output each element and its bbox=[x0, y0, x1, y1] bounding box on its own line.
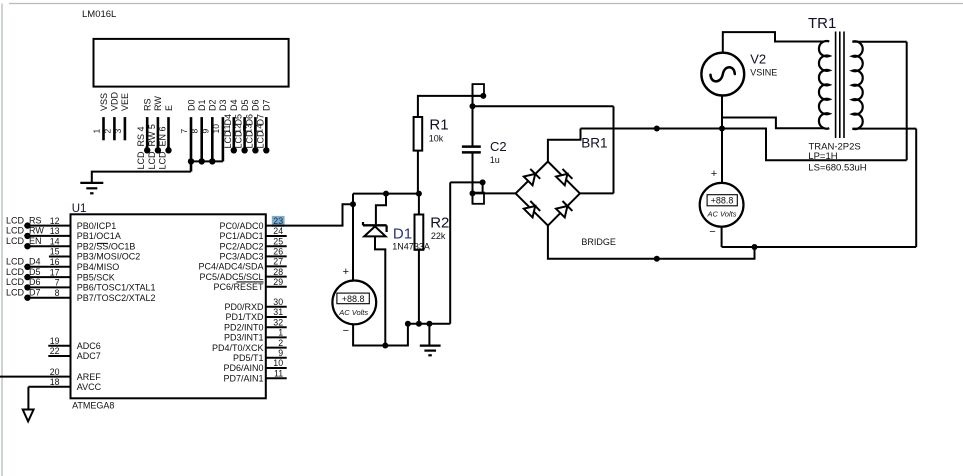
svg-text:D2: D2 bbox=[208, 99, 218, 111]
svg-text:29: 29 bbox=[273, 277, 283, 287]
svg-text:10: 10 bbox=[211, 124, 221, 134]
svg-text:LCD_RS 4: LCD_RS 4 bbox=[136, 126, 146, 169]
svg-text:31: 31 bbox=[273, 307, 283, 317]
svg-text:LCD_EN: LCD_EN bbox=[6, 236, 42, 246]
svg-text:AVCC: AVCC bbox=[77, 382, 102, 392]
svg-text:−: − bbox=[709, 226, 715, 238]
svg-text:PC2/ADC2: PC2/ADC2 bbox=[219, 241, 263, 251]
svg-text:PD3/INT1: PD3/INT1 bbox=[224, 333, 264, 343]
svg-text:D1: D1 bbox=[393, 225, 412, 242]
svg-text:2: 2 bbox=[278, 338, 283, 348]
svg-text:V2: V2 bbox=[750, 52, 766, 67]
svg-text:AREF: AREF bbox=[77, 372, 102, 382]
svg-text:PC6/RESET: PC6/RESET bbox=[213, 282, 264, 292]
svg-text:PD2/INT0: PD2/INT0 bbox=[224, 322, 264, 332]
svg-text:ADC6: ADC6 bbox=[77, 341, 101, 351]
svg-text:+: + bbox=[711, 168, 717, 180]
svg-text:32: 32 bbox=[273, 317, 283, 327]
svg-text:PC1/ADC1: PC1/ADC1 bbox=[219, 231, 263, 241]
svg-text:+: + bbox=[343, 266, 349, 278]
svg-text:PD7/AIN1: PD7/AIN1 bbox=[223, 373, 263, 383]
svg-text:24: 24 bbox=[273, 226, 283, 236]
svg-text:PD6/AIN0: PD6/AIN0 bbox=[223, 363, 263, 373]
svg-text:LCD_D4: LCD_D4 bbox=[6, 257, 41, 267]
svg-text:13: 13 bbox=[50, 226, 60, 236]
svg-text:BR1: BR1 bbox=[581, 136, 607, 151]
svg-text:10k: 10k bbox=[429, 134, 444, 144]
svg-text:VEE: VEE bbox=[120, 93, 130, 111]
svg-text:7: 7 bbox=[55, 278, 60, 288]
svg-text:18: 18 bbox=[50, 377, 60, 387]
svg-text:30: 30 bbox=[273, 297, 283, 307]
svg-text:PC3/ADC3: PC3/ADC3 bbox=[219, 252, 263, 262]
svg-text:VSINE: VSINE bbox=[750, 67, 777, 77]
svg-text:U1: U1 bbox=[72, 203, 87, 215]
svg-text:D1: D1 bbox=[197, 99, 207, 111]
svg-text:LCD_D6: LCD_D6 bbox=[244, 114, 254, 149]
svg-text:1u: 1u bbox=[490, 155, 500, 165]
svg-text:D7: D7 bbox=[262, 99, 272, 111]
svg-text:R1: R1 bbox=[429, 117, 448, 134]
svg-text:−: − bbox=[343, 325, 349, 337]
svg-text:E: E bbox=[164, 105, 174, 111]
svg-text:3: 3 bbox=[113, 129, 123, 134]
svg-text:PB3/MOSI/OC2: PB3/MOSI/OC2 bbox=[77, 252, 141, 262]
svg-text:PC4/ADC4/SDA: PC4/ADC4/SDA bbox=[198, 262, 263, 272]
svg-text:11: 11 bbox=[274, 368, 283, 378]
svg-text:LCD_D6: LCD_D6 bbox=[6, 277, 41, 287]
svg-text:14: 14 bbox=[50, 236, 60, 246]
svg-text:1: 1 bbox=[92, 129, 102, 134]
svg-text:15: 15 bbox=[50, 247, 60, 257]
svg-text:D3: D3 bbox=[218, 99, 228, 111]
svg-text:LS=680.53uH: LS=680.53uH bbox=[808, 162, 867, 173]
svg-text:7: 7 bbox=[179, 129, 189, 134]
svg-text:AC Volts: AC Volts bbox=[707, 210, 737, 219]
svg-text:16: 16 bbox=[50, 257, 60, 267]
svg-text:12: 12 bbox=[50, 216, 60, 226]
svg-text:23: 23 bbox=[273, 216, 283, 226]
svg-text:AC Volts: AC Volts bbox=[338, 308, 368, 317]
svg-text:RS: RS bbox=[143, 98, 153, 111]
svg-text:R2: R2 bbox=[430, 215, 449, 232]
svg-text:22: 22 bbox=[50, 346, 60, 356]
svg-text:PB1/OC1A: PB1/OC1A bbox=[77, 231, 121, 241]
svg-text:LCD_RW 5: LCD_RW 5 bbox=[147, 124, 157, 169]
svg-text:LCD_RW: LCD_RW bbox=[6, 226, 44, 236]
svg-text:VDD: VDD bbox=[110, 91, 120, 111]
svg-text:PB5/SCK: PB5/SCK bbox=[77, 272, 115, 282]
svg-text:PB7/TOSC2/XTAL2: PB7/TOSC2/XTAL2 bbox=[77, 293, 156, 303]
svg-text:PC0/ADC0: PC0/ADC0 bbox=[219, 221, 263, 231]
svg-text:D4: D4 bbox=[229, 99, 239, 111]
svg-text:17: 17 bbox=[50, 267, 60, 277]
svg-text:PB0/ICP1: PB0/ICP1 bbox=[77, 221, 117, 231]
svg-text:10: 10 bbox=[273, 358, 283, 368]
svg-text:+88.8: +88.8 bbox=[711, 196, 734, 206]
svg-text:19: 19 bbox=[50, 336, 60, 346]
svg-text:1: 1 bbox=[278, 328, 283, 338]
svg-text:C2: C2 bbox=[490, 139, 507, 154]
svg-text:LCD_RS: LCD_RS bbox=[6, 215, 42, 225]
svg-text:+88.8: +88.8 bbox=[342, 294, 365, 304]
svg-text:LCD_D4: LCD_D4 bbox=[223, 114, 233, 149]
svg-text:20: 20 bbox=[50, 367, 60, 377]
svg-text:22k: 22k bbox=[431, 231, 446, 241]
svg-text:LCD_D5: LCD_D5 bbox=[6, 267, 41, 277]
svg-text:ADC7: ADC7 bbox=[77, 351, 101, 361]
svg-text:RW: RW bbox=[153, 96, 163, 111]
svg-text:8: 8 bbox=[190, 129, 200, 134]
svg-text:D6: D6 bbox=[251, 99, 261, 111]
svg-text:27: 27 bbox=[273, 257, 283, 267]
svg-text:D5: D5 bbox=[240, 99, 250, 111]
svg-text:D0: D0 bbox=[186, 99, 196, 111]
svg-text:LCD_D5: LCD_D5 bbox=[234, 114, 244, 149]
svg-text:2: 2 bbox=[102, 129, 112, 134]
svg-text:VSS: VSS bbox=[99, 93, 109, 111]
svg-text:ATMEGA8: ATMEGA8 bbox=[72, 401, 114, 411]
svg-text:26: 26 bbox=[273, 247, 283, 257]
svg-text:PB6/TOSC1/XTAL1: PB6/TOSC1/XTAL1 bbox=[77, 283, 156, 293]
svg-text:PC5/ADC5/SCL: PC5/ADC5/SCL bbox=[199, 272, 263, 282]
svg-text:8: 8 bbox=[55, 288, 60, 298]
svg-text:PD5/T1: PD5/T1 bbox=[233, 353, 264, 363]
svg-text:PB4/MISO: PB4/MISO bbox=[77, 262, 120, 272]
svg-text:LCD_D7: LCD_D7 bbox=[6, 288, 41, 298]
svg-text:BRIDGE: BRIDGE bbox=[581, 237, 616, 247]
svg-text:28: 28 bbox=[273, 267, 283, 277]
svg-text:PD4/T0/XCK: PD4/T0/XCK bbox=[212, 343, 264, 353]
svg-text:LCD_D7: LCD_D7 bbox=[255, 114, 265, 149]
svg-text:LP=1H: LP=1H bbox=[808, 151, 837, 162]
svg-text:9: 9 bbox=[200, 129, 210, 134]
svg-text:PD1/TXD: PD1/TXD bbox=[225, 312, 264, 322]
svg-text:9: 9 bbox=[278, 348, 283, 358]
svg-text:25: 25 bbox=[273, 236, 283, 246]
svg-text:LM016L: LM016L bbox=[82, 9, 116, 20]
svg-text:PD0/RXD: PD0/RXD bbox=[224, 302, 264, 312]
svg-text:TR1: TR1 bbox=[808, 15, 836, 32]
